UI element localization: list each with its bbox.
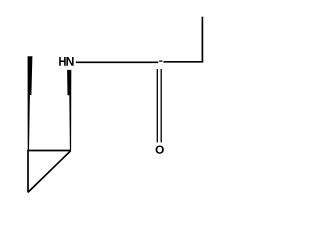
bond C-C (carbonyl to CH2, horizontal) — [164, 61, 204, 63]
carbonyl vertex tick — [159, 60, 162, 62]
cyclopropane ring left edge — [27, 151, 29, 193]
double bond C=O line 2 — [160, 69, 162, 142]
atom label HN : letter N — [66, 57, 73, 66]
bond N-C carbonyl (horizontal) — [76, 61, 159, 63]
cyclopropane ring top edge — [27, 150, 71, 152]
atom label HN : letter H — [59, 57, 66, 66]
double bond C=O line 1 — [156, 69, 158, 142]
bond CH2-CH3 (vertical, ethyl) — [201, 17, 203, 63]
wedge bond methyl (C-CH3 up from ring top-left carbon) — [28, 56, 33, 150]
wedge bond ring-N (from ring top-right carbon up to NH) — [67, 70, 71, 151]
cyclopropane ring hypotenuse — [28, 151, 71, 193]
atom label O — [156, 146, 164, 154]
